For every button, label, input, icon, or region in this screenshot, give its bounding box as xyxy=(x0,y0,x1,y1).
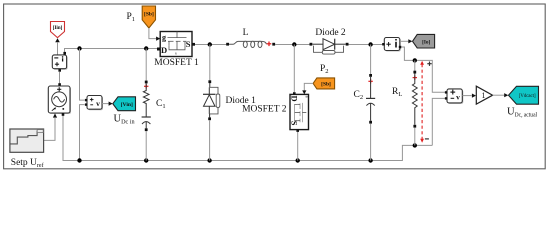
source minus terminal square xyxy=(62,113,65,116)
wire: inductor L to Diode 2 xyxy=(275,44,310,46)
junction: RL bottom / VM2 minus xyxy=(413,143,417,147)
diode 1 xyxy=(203,80,220,120)
wire: bottom rail xyxy=(63,115,432,160)
wire from [Sb] to MOSFET1 gate xyxy=(149,28,156,39)
MOSFET 1 xyxy=(157,32,195,57)
svg-text:Diode 1: Diode 1 xyxy=(226,96,257,106)
svg-text:S: S xyxy=(186,39,191,49)
resistor RL xyxy=(412,60,417,145)
goto tag [Vdcact] xyxy=(509,86,539,104)
svg-text:D: D xyxy=(161,45,167,55)
svg-text:MOSFET 1: MOSFET 1 xyxy=(154,58,199,68)
junction: bottom rail / C2 xyxy=(368,158,372,162)
svg-text:UDc in: UDc in xyxy=(114,114,135,126)
junction: input rail / C1 xyxy=(144,46,148,50)
svg-text:C1: C1 xyxy=(156,99,166,110)
svg-text:v: v xyxy=(96,99,100,108)
wire: ammeter to source xyxy=(59,72,61,85)
svg-text:P2: P2 xyxy=(320,64,329,75)
junction: bottom rail / voltmeter VM1 minus xyxy=(77,158,81,162)
goto tag [Vin] xyxy=(113,97,136,111)
wire: junction down to Diode 1 anode xyxy=(209,45,211,81)
svg-text:g: g xyxy=(305,96,310,98)
capacitor C1 (with ESR) xyxy=(142,49,151,161)
plus mark of measurement xyxy=(427,62,431,66)
wire: voltmeter output to [Vin] xyxy=(102,103,109,105)
wire ammeter A2 out to [Io] xyxy=(400,40,408,42)
wire with arrow into [Iin] xyxy=(55,38,60,42)
wire gain to [Vdcact] xyxy=(493,94,505,96)
wire: Diode 2 to ammeter A2 xyxy=(349,44,383,46)
junction: bottom rail / MOSFET 2 source xyxy=(296,158,300,162)
junction: output node / RL top xyxy=(413,58,417,62)
MOSFET 2 xyxy=(289,92,310,132)
svg-text:Setp Uref: Setp Uref xyxy=(11,158,44,169)
wire: ammeter A2 minus down and right to voltmeter VM2 plus xyxy=(401,47,445,92)
wire: vertical from junction down to voltmeter + input xyxy=(80,49,85,101)
red dashed measurement line xyxy=(420,61,424,143)
svg-text:v: v xyxy=(456,92,460,101)
ammeter A2 (output current) xyxy=(382,38,401,52)
signal builder block Setp Uref xyxy=(10,129,44,152)
svg-text:L: L xyxy=(243,28,249,38)
goto tag [Io] xyxy=(413,34,435,48)
capacitor C2 xyxy=(366,45,375,161)
svg-text:[Sb]: [Sb] xyxy=(144,12,154,18)
svg-text:P1: P1 xyxy=(127,12,136,23)
inductor L xyxy=(226,41,266,47)
goto tag [Iin] xyxy=(51,22,65,38)
minus mark of measurement xyxy=(425,138,429,140)
svg-text:UDc, actual: UDc, actual xyxy=(507,107,537,119)
goto tag [Sb] P2 xyxy=(313,78,335,89)
junction: input rail / voltmeter VM1 plus xyxy=(77,46,81,50)
red plus of L xyxy=(267,42,272,47)
voltmeter VM1 xyxy=(85,96,103,111)
ammeter A1 (input current measurement) xyxy=(52,52,67,72)
diode 2 xyxy=(310,39,349,54)
junction: bottom rail / Diode 1 xyxy=(207,158,211,162)
wire voltmeter2 minus to rail xyxy=(432,98,445,145)
goto tag [Sb] P1 xyxy=(142,6,155,28)
junction: bottom rail / C1 xyxy=(144,158,148,162)
wire [Sb] to MOSFET2 gate xyxy=(304,83,313,90)
svg-text:[Io]: [Io] xyxy=(422,39,430,45)
svg-text:1: 1 xyxy=(482,91,486,100)
wire: top rail from MOSFET1 S to inductor L xyxy=(195,44,227,46)
wire voltmeter2 to gain xyxy=(462,95,471,97)
svg-text:RL: RL xyxy=(392,87,402,98)
wire MOSFET2 S to bottom rail xyxy=(297,132,299,161)
arrow into source s input xyxy=(53,113,57,117)
junction: top rail / Diode 1 xyxy=(208,42,212,46)
wire rail to MOSFET2 D xyxy=(293,45,295,93)
voltmeter VM2 xyxy=(445,89,463,104)
svg-text:Diode 2: Diode 2 xyxy=(315,28,346,38)
svg-text:C2: C2 xyxy=(354,90,364,101)
wire: voltmeter - input down to bottom rail xyxy=(80,105,85,161)
svg-text:[Vin]: [Vin] xyxy=(121,102,133,108)
controlled voltage source V1 xyxy=(48,86,71,114)
wire: mid-left rail y=48.7 from ammeter to MOSFET1 D xyxy=(65,49,158,53)
svg-text:[Sb]: [Sb] xyxy=(321,82,331,88)
svg-text:D: D xyxy=(289,96,299,102)
svg-text:[Vdcact]: [Vdcact] xyxy=(519,94,536,99)
svg-text:s: s xyxy=(175,51,177,56)
svg-text:[Iin]: [Iin] xyxy=(53,25,63,31)
junction: top rail / C2 xyxy=(368,42,372,46)
svg-text:g: g xyxy=(162,33,166,42)
svg-text:MOSFET 2: MOSFET 2 xyxy=(242,105,287,115)
gain block xyxy=(476,86,492,104)
junction: top rail / MOSFET 2 drain xyxy=(292,42,296,46)
svg-text:S: S xyxy=(289,121,299,126)
